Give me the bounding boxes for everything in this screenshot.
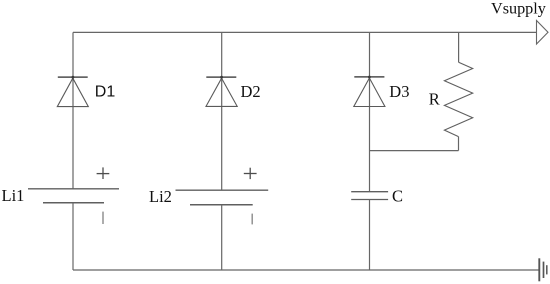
ground bar 3: [546, 265, 548, 274]
svg-text:C: C: [392, 187, 403, 206]
battery Li2 short plate (-): [190, 204, 253, 206]
wire bottom bus: [73, 269, 539, 271]
diode D3: [354, 76, 385, 107]
port Vsupply (output triangle): [537, 21, 549, 45]
wire branch1 lower: [72, 203, 74, 270]
wire branch3 lower: [369, 200, 371, 271]
svg-text:D1: D1: [95, 84, 116, 101]
wire branch2 lower: [221, 205, 223, 270]
ground bar 1: [538, 258, 540, 281]
diode D2: [206, 76, 237, 107]
resistor R zigzag: [444, 62, 472, 136]
plus sign Li2: [244, 168, 257, 179]
svg-text:D2: D2: [241, 82, 261, 101]
capacitor C top plate: [351, 191, 388, 193]
wire middle (node to resistor bottom): [370, 150, 459, 152]
diode D1: [57, 76, 88, 107]
wire resistor top: [458, 32, 460, 62]
wire branch1 upper: [72, 32, 74, 189]
svg-text:D3: D3: [389, 82, 409, 101]
minus sign Li2 (rotated): [251, 214, 253, 225]
wire top bus: [73, 31, 537, 33]
minus sign Li1 (rotated): [102, 212, 104, 224]
wire branch2 upper: [221, 32, 223, 190]
battery Li2 long plate (+): [176, 189, 269, 191]
plus sign Li1: [97, 167, 110, 179]
svg-text:Li1: Li1: [2, 186, 25, 205]
svg-text:Li2: Li2: [149, 187, 172, 206]
battery Li1 long plate (+): [28, 188, 119, 190]
ground bar 2: [543, 262, 545, 278]
svg-text:R: R: [429, 90, 440, 109]
capacitor C bottom plate: [351, 199, 388, 201]
svg-text:Vsupply: Vsupply: [491, 0, 547, 17]
wire branch3 upper: [369, 32, 371, 191]
battery Li1 short plate (-): [43, 202, 104, 204]
wire resistor bottom: [458, 137, 460, 151]
